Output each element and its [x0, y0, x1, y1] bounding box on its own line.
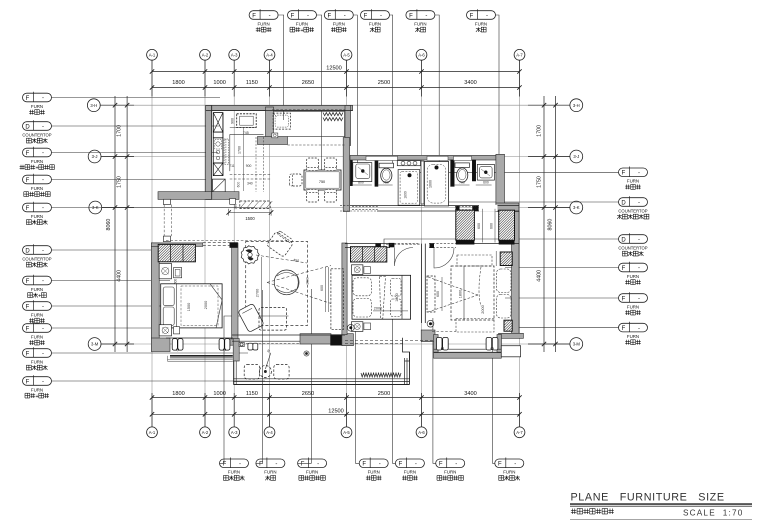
- svg-text:FURN: FURN: [31, 287, 43, 292]
- svg-text:2500: 2500: [378, 391, 390, 397]
- svg-text:A-3: A-3: [231, 52, 238, 57]
- svg-text:-: -: [42, 96, 44, 102]
- svg-text:2500: 2500: [378, 80, 390, 86]
- svg-text:FURN: FURN: [296, 21, 308, 26]
- balcony rails: [234, 378, 410, 380]
- svg-text:+: +: [35, 394, 38, 400]
- svg-text:600: 600: [477, 223, 481, 229]
- svg-text:3-M: 3-M: [573, 342, 581, 347]
- walls existing (gray): [206, 106, 353, 111]
- svg-text:FURN: FURN: [627, 304, 639, 309]
- svg-text:-: -: [239, 462, 241, 468]
- svg-text:711: 711: [229, 164, 235, 168]
- svg-text:3-J: 3-J: [573, 154, 579, 159]
- svg-text:A-1: A-1: [149, 430, 156, 435]
- svg-text:FURN: FURN: [31, 214, 43, 219]
- dining table and chairs: [304, 170, 341, 190]
- svg-text:-: -: [275, 462, 277, 468]
- svg-text:600: 600: [483, 181, 489, 185]
- svg-text:+: +: [35, 166, 38, 172]
- walk-in wardrobe: [456, 210, 475, 240]
- svg-text:-: -: [269, 13, 271, 19]
- svg-text:F: F: [439, 462, 443, 468]
- svg-text:F: F: [26, 178, 30, 184]
- bedroom2 furniture: [351, 247, 387, 262]
- svg-text:750: 750: [319, 180, 325, 184]
- svg-text:-: -: [42, 351, 44, 357]
- svg-text:1500: 1500: [187, 303, 191, 311]
- left furniture callouts: [23, 93, 52, 102]
- svg-text:-: -: [344, 13, 346, 19]
- svg-text:FURN: FURN: [31, 334, 43, 339]
- svg-text:FURN: FURN: [503, 470, 515, 475]
- svg-text:2000: 2000: [204, 301, 208, 309]
- svg-text:700: 700: [459, 181, 465, 185]
- svg-text:FURN: FURN: [627, 179, 639, 184]
- svg-text:F: F: [26, 379, 30, 385]
- svg-text:600: 600: [174, 279, 178, 285]
- svg-text:-: -: [42, 326, 44, 332]
- svg-text:FURN: FURN: [31, 104, 43, 109]
- svg-text:FURN: FURN: [414, 21, 426, 26]
- svg-text:A-2: A-2: [202, 430, 209, 435]
- svg-text:8060: 8060: [548, 219, 554, 231]
- svg-text:F: F: [26, 279, 30, 285]
- svg-text:800: 800: [358, 181, 364, 185]
- master bedroom furniture: [427, 276, 435, 312]
- right furniture callouts: [619, 168, 648, 177]
- svg-text:3-K: 3-K: [573, 205, 580, 210]
- svg-text:A-3: A-3: [231, 430, 238, 435]
- svg-text:-: -: [42, 151, 44, 157]
- svg-text:2650: 2650: [302, 80, 314, 86]
- svg-text:D: D: [621, 200, 626, 206]
- shoe cabinet: [240, 201, 270, 209]
- svg-text:1600: 1600: [429, 180, 433, 188]
- svg-text:FURN: FURN: [475, 21, 487, 26]
- svg-text:1700: 1700: [116, 125, 122, 137]
- svg-text:F: F: [409, 13, 413, 19]
- black wall piers: [330, 334, 341, 345]
- svg-text:FURN: FURN: [257, 21, 269, 26]
- svg-text:F: F: [291, 13, 295, 19]
- svg-text:1800: 1800: [459, 290, 463, 298]
- bottom grid bubbles: [147, 427, 158, 438]
- svg-text:3400: 3400: [464, 80, 476, 86]
- svg-text:600: 600: [489, 223, 493, 229]
- svg-text:1150: 1150: [246, 391, 258, 397]
- svg-text:A-6: A-6: [418, 52, 425, 57]
- svg-text:COUNTERTOP: COUNTERTOP: [22, 256, 51, 261]
- svg-text:1800: 1800: [172, 80, 184, 86]
- interior partitions: [206, 110, 353, 112]
- svg-text:FURN: FURN: [333, 21, 345, 26]
- svg-text:F: F: [26, 326, 30, 332]
- svg-text:F: F: [622, 296, 626, 302]
- svg-text:A-7: A-7: [516, 52, 523, 57]
- svg-text:F: F: [498, 462, 502, 468]
- svg-text:3-M: 3-M: [91, 342, 99, 347]
- svg-text:-: -: [486, 13, 488, 19]
- svg-text:-: -: [379, 462, 381, 468]
- svg-text:-: -: [638, 296, 640, 302]
- bathroom fixtures: [350, 160, 352, 186]
- left dimension line: [114, 96, 116, 352]
- svg-text:1700: 1700: [537, 125, 543, 137]
- svg-text:3-H: 3-H: [573, 103, 580, 108]
- svg-text:2000: 2000: [481, 305, 485, 313]
- svg-text:4400: 4400: [537, 270, 543, 282]
- svg-text:FURN: FURN: [627, 334, 639, 339]
- bath top wall window slots: [366, 156, 398, 160]
- svg-text:-: -: [638, 171, 640, 177]
- svg-text:-: -: [42, 379, 44, 385]
- svg-text:-: -: [638, 200, 640, 206]
- svg-text:F: F: [327, 13, 331, 19]
- svg-text:-: -: [42, 248, 44, 254]
- svg-text:D: D: [25, 124, 30, 130]
- svg-text:-: -: [638, 326, 640, 332]
- svg-text:-: -: [317, 462, 319, 468]
- floor drain: [304, 351, 309, 356]
- svg-text:COUNTERTOP: COUNTERTOP: [22, 132, 51, 137]
- svg-text:1150: 1150: [246, 80, 258, 86]
- bedroom2 door arc: [395, 248, 414, 267]
- svg-text:1800: 1800: [172, 391, 184, 397]
- svg-text:F: F: [399, 462, 403, 468]
- svg-text:-: -: [42, 206, 44, 212]
- top dimension line: [152, 71, 520, 73]
- balcony table and chairs: [244, 364, 259, 379]
- svg-text:380: 380: [234, 204, 238, 210]
- svg-text:F: F: [26, 351, 30, 357]
- svg-text:FURN: FURN: [404, 470, 416, 475]
- svg-text:2700: 2700: [256, 289, 260, 297]
- svg-text:2000: 2000: [374, 307, 382, 311]
- svg-text:4400: 4400: [116, 270, 122, 282]
- svg-text:FURN: FURN: [444, 470, 456, 475]
- grid lines: [151, 60, 153, 438]
- svg-text:340: 340: [247, 182, 253, 186]
- svg-text:COUNTERTOP: COUNTERTOP: [618, 245, 647, 250]
- svg-text:F: F: [622, 266, 626, 272]
- svg-text:FURN: FURN: [228, 470, 240, 475]
- svg-text:FURN: FURN: [31, 387, 43, 392]
- svg-text:1700: 1700: [237, 146, 241, 154]
- svg-text:1750: 1750: [537, 176, 543, 188]
- svg-text:FURN: FURN: [31, 359, 43, 364]
- svg-text:F: F: [364, 13, 368, 19]
- washing machine: [273, 113, 290, 129]
- svg-text:900: 900: [231, 118, 235, 124]
- svg-text:-: -: [42, 304, 44, 310]
- svg-text:1750: 1750: [116, 176, 122, 188]
- svg-text:D: D: [621, 237, 626, 243]
- svg-text:12500: 12500: [328, 408, 344, 414]
- svg-text:PLANE FURNITURE SIZE: PLANE FURNITURE SIZE: [571, 492, 725, 504]
- svg-text:FURN: FURN: [369, 21, 381, 26]
- svg-text:F: F: [26, 151, 30, 157]
- svg-text:1800: 1800: [395, 293, 399, 301]
- svg-text:600: 600: [237, 182, 241, 188]
- svg-text:-: -: [455, 462, 457, 468]
- svg-text:3400: 3400: [464, 391, 476, 397]
- svg-text:-: -: [307, 13, 309, 19]
- svg-text:A-7: A-7: [516, 430, 523, 435]
- svg-text:F: F: [622, 326, 626, 332]
- kitchen cabinets: [213, 113, 223, 133]
- svg-text:-: -: [42, 279, 44, 285]
- right grid bubbles: [570, 99, 583, 112]
- svg-text:-: -: [380, 13, 382, 19]
- svg-text:F: F: [26, 304, 30, 310]
- svg-text:+: +: [38, 294, 41, 300]
- bottom dimension line: [152, 397, 520, 399]
- svg-text:A-4: A-4: [266, 52, 273, 57]
- svg-text:A-5: A-5: [343, 430, 350, 435]
- balcony annotation scribble: [361, 373, 401, 377]
- svg-text:FURN: FURN: [264, 470, 276, 475]
- bedroom1 furniture: [158, 244, 195, 261]
- svg-text:-: -: [514, 462, 516, 468]
- svg-text:D: D: [25, 248, 30, 254]
- svg-text:750: 750: [383, 181, 389, 185]
- svg-text:F: F: [26, 206, 30, 212]
- svg-text:-: -: [638, 266, 640, 272]
- top grid bubbles: [147, 49, 158, 60]
- bedroom1 door opening: [203, 242, 230, 244]
- svg-text:FURN: FURN: [368, 470, 380, 475]
- svg-text:12500: 12500: [326, 66, 342, 72]
- svg-text:A-5: A-5: [343, 52, 350, 57]
- svg-text:A-2: A-2: [202, 52, 209, 57]
- svg-text:-: -: [425, 13, 427, 19]
- windows: [151, 338, 170, 352]
- svg-text:F: F: [252, 13, 256, 19]
- kitchen door opening: [230, 174, 272, 176]
- svg-text:FURN: FURN: [31, 159, 43, 164]
- svg-text:-: -: [42, 124, 44, 130]
- svg-text:8060: 8060: [106, 219, 112, 231]
- svg-text:1800: 1800: [404, 191, 408, 199]
- svg-text:-: -: [42, 178, 44, 184]
- bottom furniture callouts: [220, 459, 249, 468]
- svg-text:FURN: FURN: [627, 274, 639, 279]
- svg-text:A-4: A-4: [266, 430, 273, 435]
- svg-text:SCALE 1:70: SCALE 1:70: [683, 509, 744, 518]
- svg-text:F: F: [362, 462, 366, 468]
- left grid bubbles: [87, 99, 100, 112]
- svg-text:F: F: [26, 96, 30, 102]
- svg-text:600: 600: [436, 291, 440, 297]
- svg-text:3-J: 3-J: [92, 154, 98, 159]
- svg-text:COUNTERTOP: COUNTERTOP: [618, 208, 647, 213]
- svg-text:F: F: [470, 13, 474, 19]
- svg-text:+: +: [300, 28, 303, 34]
- svg-text:A-1: A-1: [149, 52, 156, 57]
- svg-text:1000: 1000: [213, 80, 225, 86]
- svg-text:FURN: FURN: [306, 470, 318, 475]
- top furniture callouts: [249, 11, 278, 20]
- svg-text:600: 600: [320, 285, 324, 291]
- svg-text:F: F: [622, 171, 626, 177]
- svg-text:F: F: [301, 462, 305, 468]
- right dimension line: [543, 96, 545, 352]
- svg-text:1600: 1600: [306, 277, 310, 285]
- svg-text:A-6: A-6: [418, 430, 425, 435]
- svg-text:-: -: [415, 462, 417, 468]
- entry area: [274, 110, 345, 112]
- svg-text:1500: 1500: [245, 216, 255, 221]
- hallway thin walls: [350, 205, 519, 207]
- svg-text:FURN: FURN: [31, 186, 43, 191]
- svg-text:F: F: [223, 462, 227, 468]
- svg-text:900: 900: [246, 164, 252, 168]
- svg-text:2650: 2650: [302, 391, 314, 397]
- svg-text:-: -: [638, 237, 640, 243]
- living room furniture: [246, 242, 308, 326]
- svg-text:3-H: 3-H: [90, 103, 97, 108]
- svg-text:FURN: FURN: [31, 312, 43, 317]
